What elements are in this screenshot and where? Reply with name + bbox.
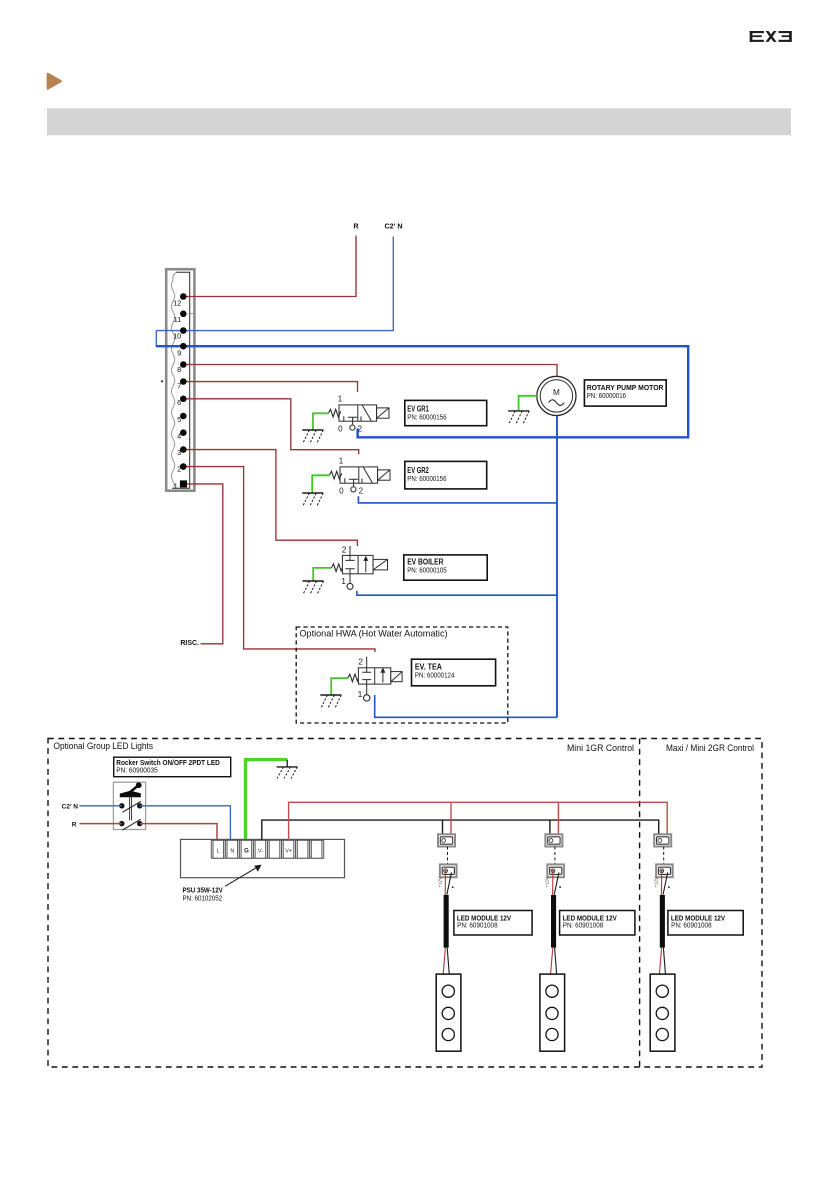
svg-text:PN: 60000156: PN: 60000156 — [407, 412, 446, 421]
valve EV GR2 symbol — [329, 467, 390, 487]
connector pin 11 — [180, 311, 187, 318]
EX3 logo — [750, 31, 792, 42]
label box EV. TEA — [412, 659, 496, 686]
connector block top 2 — [545, 834, 562, 846]
arrow PSU label to box — [225, 867, 258, 886]
svg-text:L: L — [217, 848, 220, 854]
svg-text:PN: 60901008: PN: 60901008 — [457, 922, 498, 929]
LED strip 1 — [436, 974, 461, 1051]
wire EV GR2 green — [312, 475, 329, 492]
PSU box — [181, 839, 345, 877]
svg-text:1: 1 — [174, 481, 178, 490]
ground EV BOILER — [303, 581, 324, 595]
wire cable to LED black 3 — [663, 948, 665, 974]
stray dot 2 — [559, 886, 561, 888]
wire PSU G green — [245, 760, 287, 840]
wire switch to PSU L (red) — [140, 824, 217, 840]
svg-text:PN: 60901008: PN: 60901008 — [563, 922, 604, 929]
wire pin 6 to EV GR2 (red) — [186, 399, 358, 455]
wire R to pin 12 (red) — [186, 236, 356, 297]
wire EV TEA port1 to bus (blue) — [375, 695, 557, 717]
wire block to cable red 3 — [660, 873, 662, 896]
wire pin 8 to motor (red) — [186, 365, 557, 377]
connector pin 3 — [180, 446, 187, 453]
connector pin 9 — [180, 343, 187, 350]
svg-text:0: 0 — [338, 425, 343, 434]
svg-text:5: 5 — [177, 415, 181, 424]
svg-text:2: 2 — [342, 545, 347, 555]
svg-text:PN: 60102052: PN: 60102052 — [183, 893, 223, 902]
valve EV BOILER port labels — [347, 583, 353, 589]
ground EV GR1 — [302, 430, 323, 444]
svg-text:Rocker Switch ON/OFF 2PDT LED: Rocker Switch ON/OFF 2PDT LED — [116, 760, 220, 767]
svg-text:2: 2 — [358, 656, 363, 666]
label box LED MODULE 1 — [454, 911, 532, 936]
svg-text:1: 1 — [339, 457, 344, 466]
svg-text:LED MODULE 12V: LED MODULE 12V — [671, 915, 725, 922]
svg-text:C2' N: C2' N — [62, 804, 79, 811]
wire block to cable red 1 — [444, 873, 446, 896]
stray dot 3 — [668, 886, 670, 888]
svg-text:Mini 1GR Control: Mini 1GR Control — [567, 743, 634, 753]
wire block to cable black 2 — [554, 872, 559, 894]
dashed box Optional Group LED Lights — [48, 739, 762, 1068]
connector block bottom 3 — [656, 864, 673, 877]
svg-text:M: M — [553, 388, 560, 397]
svg-text:PN: 60000105: PN: 60000105 — [407, 565, 447, 574]
svg-text:3: 3 — [177, 448, 181, 457]
stray dot left of connector — [161, 380, 163, 382]
LED strip 2 — [540, 974, 565, 1051]
section marker triangle — [47, 73, 62, 90]
connector CN1 body — [166, 269, 194, 491]
wire block to cable red 2 — [552, 873, 554, 896]
svg-text:PN: 60000156: PN: 60000156 — [407, 474, 446, 483]
svg-text:9: 9 — [177, 348, 181, 357]
svg-text:LED MODULE 12V: LED MODULE 12V — [457, 915, 511, 922]
svg-text:6: 6 — [177, 398, 181, 407]
wire green to ground (black) — [286, 760, 288, 767]
svg-text:2: 2 — [359, 487, 364, 496]
wire block to cable black 1 — [447, 872, 452, 894]
svg-text:Maxi / Mini 2GR Control: Maxi / Mini 2GR Control — [666, 743, 754, 753]
wire pin 1 to RISC (red) — [187, 484, 223, 644]
wire EV GR2 port2 to bus (blue) — [358, 496, 557, 503]
svg-text:PN: 60901008: PN: 60901008 — [671, 922, 712, 929]
connector pin 8 — [180, 361, 187, 368]
LED cable 2 — [551, 895, 556, 948]
valve EV GR2 port labels — [351, 487, 356, 492]
wire red bus drop 1 — [450, 802, 452, 834]
svg-text:LED MODULE 12V: LED MODULE 12V — [563, 915, 617, 922]
section header gray bar — [47, 108, 791, 135]
wire motor green — [519, 396, 537, 411]
svg-text:1: 1 — [358, 689, 363, 699]
connector pin 4 — [180, 429, 187, 436]
svg-text:+12V: +12V — [437, 877, 442, 887]
label box Rocker Switch — [114, 757, 231, 777]
stray dot 1 — [452, 886, 454, 888]
wire block to cable black 3 — [663, 872, 668, 894]
svg-text:RISC.: RISC. — [180, 640, 199, 647]
connector block top 3 — [654, 834, 671, 846]
dashed link 1 — [447, 847, 449, 865]
svg-text:12: 12 — [173, 298, 181, 307]
svg-text:Optional Group LED Lights: Optional Group LED Lights — [54, 741, 154, 751]
svg-text:C2' N: C2' N — [384, 222, 402, 231]
label box ROTARY PUMP MOTOR — [584, 380, 666, 406]
label box EV BOILER — [404, 555, 487, 580]
wire EV BOILER port1 to bus (blue) — [357, 591, 557, 595]
wire main blue vertical bus — [556, 437, 558, 717]
wire cable to LED black 1 — [447, 948, 449, 974]
connector pin 7 — [180, 378, 187, 385]
svg-text:Optional HWA (Hot Water Automa: Optional HWA (Hot Water Automatic) — [300, 629, 448, 639]
wire R to switch (red) — [80, 823, 122, 825]
rocker switch SW1 — [113, 782, 145, 830]
wire cable to LED red 1 — [443, 948, 445, 974]
connector block top 1 — [438, 834, 455, 846]
dashed link 2 — [554, 847, 556, 865]
wire cable to LED red 2 — [551, 948, 553, 974]
svg-text:G: G — [244, 848, 249, 854]
LED cable 3 — [660, 895, 665, 948]
wire red bus drop 2 — [557, 802, 559, 834]
svg-text:1: 1 — [341, 576, 346, 586]
stray mark near pin 11 (blue tick) — [189, 313, 197, 315]
svg-text:2: 2 — [177, 465, 181, 474]
wire cable to LED black 2 — [555, 948, 557, 974]
ground EV GR2 — [302, 493, 323, 507]
svg-text:+12V: +12V — [654, 877, 659, 887]
svg-text:7: 7 — [177, 382, 181, 391]
svg-text:1: 1 — [338, 395, 343, 404]
label box LED MODULE 3 — [668, 911, 743, 936]
valve EV GR1 port labels — [350, 425, 355, 430]
dashed divider Maxi/Mini column — [639, 739, 641, 1068]
wire EV BOILER green — [313, 568, 331, 581]
connector block bottom 2 — [547, 864, 564, 877]
connector pin 1 (square) — [180, 480, 187, 487]
LED cable 1 — [444, 895, 449, 948]
wire cable to LED red 3 — [659, 948, 661, 974]
svg-text:10: 10 — [173, 332, 181, 341]
svg-text:8: 8 — [177, 365, 181, 374]
connector pin 2 — [180, 463, 187, 470]
label box EV GR2 — [405, 461, 487, 489]
svg-text:V-: V- — [258, 848, 263, 854]
wire EV GR1 green — [313, 413, 328, 429]
svg-text:PN: 60000016: PN: 60000016 — [587, 391, 626, 400]
valve EV BOILER symbol — [331, 546, 387, 583]
svg-text:V+: V+ — [285, 848, 292, 854]
svg-text:PN: 60900035: PN: 60900035 — [116, 767, 157, 774]
ground EV TEA — [320, 695, 341, 709]
label box LED MODULE 2 — [560, 911, 635, 936]
wire black bus drop 2 — [549, 820, 551, 834]
connector block bottom 1 — [440, 864, 457, 877]
wire black bus drop 1 — [442, 820, 444, 834]
svg-text:2: 2 — [358, 425, 363, 434]
wire C2'N to switch (blue) — [80, 805, 122, 807]
dashed link 3 — [663, 847, 665, 865]
svg-text:11: 11 — [174, 315, 182, 324]
wire pin 7 to EV GR1 (red) — [186, 382, 357, 392]
svg-text:0: 0 — [339, 487, 344, 496]
connector pin 6 — [180, 396, 187, 403]
svg-text:4: 4 — [177, 432, 181, 441]
valve EV GR1 symbol — [328, 405, 389, 425]
ground motor — [508, 411, 529, 425]
label box EV GR1 — [405, 400, 487, 425]
connector pin 5 — [180, 413, 187, 420]
wire V- black bus — [262, 820, 659, 840]
svg-text:+12V: +12V — [545, 877, 550, 887]
svg-text:R: R — [353, 222, 359, 231]
wire pin 9 main loop (thick blue) — [156, 346, 688, 437]
wire C2' N to pin 10 (blue) — [156, 237, 393, 331]
wire switch to PSU N (blue) — [140, 806, 231, 840]
wire motor bottom to bus (blue) — [556, 416, 558, 438]
valve EV TEA symbol — [348, 657, 402, 695]
valve EV TEA port labels — [364, 695, 370, 701]
svg-text:R: R — [72, 821, 77, 828]
svg-text:N: N — [230, 848, 234, 854]
ground PSU G — [277, 767, 298, 779]
connector pin 10 — [180, 327, 187, 334]
connector pin 12 — [180, 293, 187, 300]
motor M1 rotary pump — [537, 376, 576, 415]
LED strip 3 — [650, 974, 675, 1051]
wire pin 3 to EV BOILER (red) — [186, 450, 357, 546]
wire EV TEA green — [331, 678, 348, 695]
dashed box Optional HWA — [296, 627, 508, 723]
svg-text:PN: 60000124: PN: 60000124 — [415, 670, 455, 679]
wire pin 2 to EV TEA (red) — [186, 467, 375, 652]
PSU terminal strip — [211, 840, 323, 858]
wire jumper pin10-pin9 (blue) — [155, 331, 157, 347]
wire V+ red bus — [289, 802, 668, 840]
